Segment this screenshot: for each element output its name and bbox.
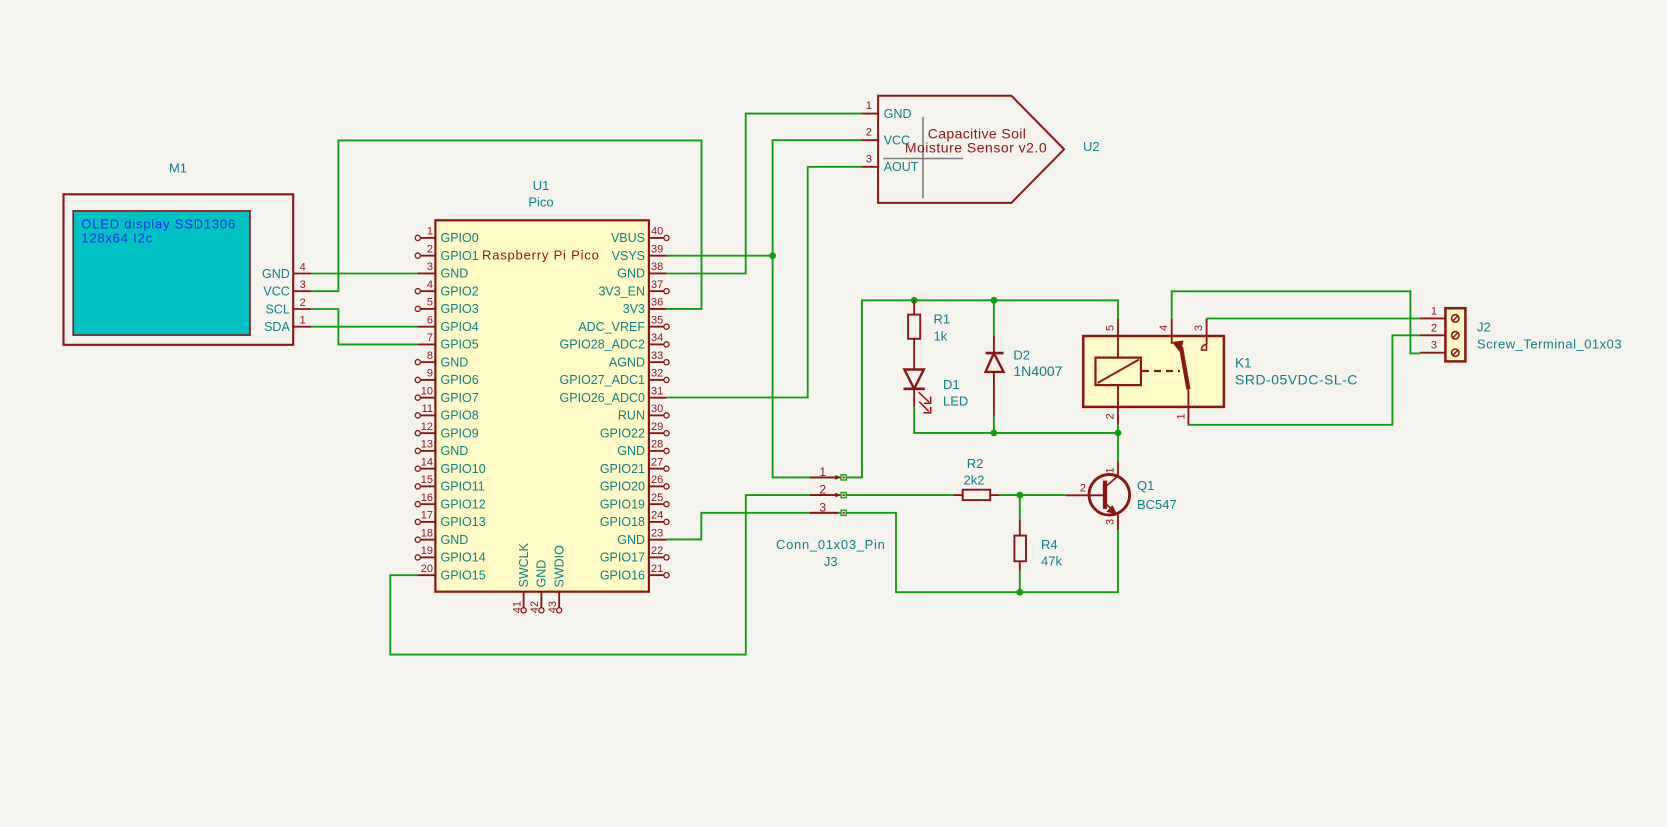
wire Q1 collector to relay rail [1117, 433, 1119, 463]
wire M1 SCL to U1 GPIO5 [311, 309, 418, 344]
wire M1 GND to U1 pin3 GND [311, 273, 418, 275]
M1 pin 3 VCC [263, 279, 311, 298]
svg-text:GPIO19: GPIO19 [600, 497, 645, 511]
svg-text:7: 7 [427, 332, 433, 344]
svg-text:GPIO3: GPIO3 [441, 302, 479, 316]
U1 pin 25 GPIO19 [600, 492, 669, 512]
svg-text:GND: GND [617, 533, 645, 547]
OLED display module M1 [64, 194, 294, 344]
U1 pin 38 GND [617, 261, 666, 281]
U2 pin 3 AOUT [861, 153, 918, 174]
svg-text:VCC: VCC [884, 134, 910, 148]
svg-text:16: 16 [421, 492, 433, 504]
svg-text:D1: D1 [943, 377, 960, 392]
svg-text:GPIO26_ADC0: GPIO26_ADC0 [560, 391, 646, 405]
svg-text:GPIO17: GPIO17 [600, 551, 645, 565]
wire U1 GND23 to J3 pin3 [667, 513, 841, 540]
svg-text:GPIO15: GPIO15 [441, 568, 486, 582]
transistor Q1 [1066, 462, 1130, 530]
svg-text:21: 21 [651, 563, 663, 575]
sensor U2 body [878, 96, 1064, 203]
svg-text:23: 23 [651, 527, 663, 539]
svg-text:Screw_Terminal_01x03: Screw_Terminal_01x03 [1477, 337, 1622, 352]
M1 pin 2 SCL [265, 297, 311, 316]
U2 pin 2 VCC [861, 127, 910, 148]
U1 pin 1 GPIO0 [415, 226, 479, 246]
svg-text:GPIO28_ADC2: GPIO28_ADC2 [560, 338, 646, 352]
U1 pin 22 GPIO17 [600, 545, 669, 565]
svg-text:28: 28 [651, 439, 663, 451]
svg-text:GPIO4: GPIO4 [441, 320, 479, 334]
junction R4 bottom [1016, 589, 1023, 596]
svg-text:GPIO13: GPIO13 [441, 515, 486, 529]
J2 pin 3 [1420, 340, 1459, 357]
svg-text:SWDIO: SWDIO [553, 545, 567, 588]
svg-text:J3: J3 [824, 554, 838, 569]
U1 pin 11 GPIO8 [415, 403, 479, 423]
svg-text:31: 31 [651, 385, 663, 397]
junction D2 bottom [991, 430, 998, 437]
U1 pin 31 GPIO26_ADC0 [560, 385, 667, 405]
K1 switch armature [1172, 341, 1188, 390]
svg-text:2: 2 [427, 243, 433, 255]
svg-text:10: 10 [421, 385, 433, 397]
K1 dashed link [1142, 370, 1180, 372]
svg-text:42: 42 [529, 601, 541, 613]
svg-text:GPIO5: GPIO5 [441, 338, 479, 352]
U1 pin 3 GND [418, 261, 469, 281]
wire U1 VSYS to node [667, 255, 773, 257]
svg-text:D2: D2 [1013, 348, 1030, 363]
svg-text:GPIO20: GPIO20 [600, 480, 645, 494]
wire node to R4 top [1019, 495, 1021, 520]
U1 pin 40 VBUS [611, 226, 669, 246]
svg-text:AOUT: AOUT [884, 160, 919, 174]
J2 pin 2 [1420, 322, 1459, 339]
U1 pin 2 GPIO1 [415, 243, 479, 263]
J3 pin 1 [810, 465, 846, 480]
wire D1 bottom rail to K1 pin2 [914, 407, 1118, 433]
svg-text:GPIO6: GPIO6 [441, 373, 479, 387]
K1 pin4 contact [1171, 336, 1173, 344]
svg-text:R1: R1 [934, 312, 951, 327]
svg-text:15: 15 [421, 474, 433, 486]
svg-text:27: 27 [651, 456, 663, 468]
svg-text:1: 1 [866, 100, 872, 112]
junction R4 top node [1016, 492, 1023, 499]
svg-text:GND: GND [617, 267, 645, 281]
wire VSYS net: U2 VCC down to J3 pin1 [773, 140, 862, 477]
svg-text:1N4007: 1N4007 [1013, 363, 1062, 379]
svg-text:AGND: AGND [609, 355, 645, 369]
svg-text:GPIO2: GPIO2 [441, 284, 479, 298]
U1 pin 5 GPIO3 [415, 297, 479, 317]
K1 pin 2 stub [1117, 407, 1119, 425]
svg-text:32: 32 [651, 368, 663, 380]
svg-text:GND: GND [441, 267, 469, 281]
svg-text:17: 17 [421, 510, 433, 522]
svg-text:GPIO21: GPIO21 [600, 462, 645, 476]
U1 pin 15 GPIO11 [415, 474, 485, 494]
svg-text:Pico: Pico [528, 195, 553, 210]
svg-text:3: 3 [427, 261, 433, 273]
wire D2 bottom to rail [993, 416, 995, 433]
svg-text:38: 38 [651, 261, 663, 273]
screw terminal J2 body [1445, 308, 1465, 361]
U1 pin 26 GPIO20 [600, 474, 669, 494]
svg-text:U1: U1 [533, 178, 550, 193]
svg-text:47k: 47k [1041, 554, 1062, 569]
svg-text:11: 11 [422, 403, 433, 415]
svg-text:3: 3 [866, 153, 872, 165]
svg-text:GPIO12: GPIO12 [441, 497, 486, 511]
J3 pin 2 [810, 483, 846, 498]
M1 pin 4 GND [262, 262, 311, 281]
svg-text:2: 2 [819, 483, 826, 497]
svg-text:26: 26 [651, 474, 663, 486]
wire R4 bottom to GND rail [1019, 571, 1021, 593]
svg-text:3: 3 [1105, 519, 1117, 525]
junction R1 top [911, 297, 918, 304]
U1 pin 35 ADC_VREF [578, 314, 669, 334]
svg-text:GPIO18: GPIO18 [600, 515, 645, 529]
svg-text:13: 13 [421, 439, 433, 451]
relay K1 body [1083, 336, 1224, 407]
svg-text:VCC: VCC [263, 285, 289, 299]
svg-text:GND: GND [262, 267, 290, 281]
svg-text:VSYS: VSYS [612, 249, 645, 263]
svg-text:GND: GND [884, 107, 912, 121]
svg-text:3: 3 [300, 279, 306, 291]
U1 pin 34 GPIO28_ADC2 [560, 332, 670, 352]
wire J3 pin1 to +5V top rail to K1 pin5 [847, 300, 1119, 477]
svg-text:GPIO8: GPIO8 [441, 409, 479, 423]
svg-text:BC547: BC547 [1137, 497, 1177, 512]
U1 pin 13 GND [415, 439, 468, 459]
svg-text:SWCLK: SWCLK [517, 542, 531, 587]
wire K1 pin3 to J2 pin1 [1207, 318, 1420, 320]
svg-text:3V3_EN: 3V3_EN [598, 284, 645, 298]
wire J3 pin3 GND rail to Q1 emitter [847, 513, 1119, 592]
junction VSYS node [769, 252, 776, 259]
svg-text:M1: M1 [169, 161, 187, 176]
resistor R1 [908, 315, 920, 370]
svg-text:43: 43 [547, 601, 559, 613]
svg-text:Q1: Q1 [1137, 478, 1154, 493]
wire J3 pin2 to R2 [847, 494, 954, 496]
svg-text:3: 3 [819, 500, 826, 514]
svg-text:29: 29 [651, 421, 663, 433]
svg-text:3V3: 3V3 [623, 302, 645, 316]
svg-text:14: 14 [421, 456, 433, 468]
svg-text:K1: K1 [1235, 356, 1252, 371]
svg-text:18: 18 [421, 527, 433, 539]
svg-text:GPIO11: GPIO11 [441, 480, 485, 494]
svg-text:5: 5 [1105, 325, 1117, 331]
svg-text:GPIO10: GPIO10 [441, 462, 486, 476]
U1 pin 36 3V3 [623, 297, 667, 317]
svg-text:GPIO1: GPIO1 [441, 249, 479, 263]
K1 pin3 contact [1201, 319, 1206, 350]
diode D2 [986, 353, 1004, 415]
svg-text:GND: GND [441, 355, 469, 369]
svg-text:5: 5 [427, 297, 433, 309]
svg-text:GPIO16: GPIO16 [600, 568, 645, 582]
U1 pin 29 GPIO22 [600, 421, 669, 441]
svg-text:20: 20 [421, 563, 433, 575]
svg-text:GND: GND [441, 533, 469, 547]
svg-text:RUN: RUN [618, 409, 645, 423]
U1 pin 41 SWCLK [511, 542, 531, 613]
wire K1 pin4 to J2 pin3 [1172, 291, 1420, 353]
svg-text:R4: R4 [1041, 537, 1058, 552]
U1 pin 20 GPIO15 [418, 563, 486, 583]
svg-text:Moisture Sensor v2.0: Moisture Sensor v2.0 [905, 139, 1047, 155]
svg-text:J2: J2 [1477, 320, 1491, 335]
wire D2 top to rail [993, 300, 995, 335]
U1 pin 30 RUN [618, 403, 669, 423]
svg-text:22: 22 [651, 545, 663, 557]
U1 pin 43 SWDIO [547, 545, 567, 613]
svg-text:39: 39 [651, 243, 663, 255]
U1 pin 7 GPIO5 [418, 332, 479, 352]
K1 coil [1096, 336, 1141, 407]
U1 pin 28 GND [617, 439, 669, 459]
U1 pin 6 GPIO4 [418, 314, 479, 334]
wire K1 pin1 to J2 pin2 [1188, 335, 1419, 425]
K1 pin 5 stub [1117, 319, 1119, 336]
svg-text:SCL: SCL [265, 302, 289, 316]
svg-text:4: 4 [1158, 325, 1170, 331]
svg-text:LED: LED [943, 394, 968, 409]
U2 pin 1 GND [861, 100, 911, 121]
U1 pin 27 GPIO21 [600, 456, 669, 476]
svg-text:6: 6 [427, 314, 433, 326]
U1 pin 12 GPIO9 [415, 421, 479, 441]
svg-text:SDA: SDA [264, 320, 290, 334]
svg-text:3: 3 [1193, 325, 1205, 331]
svg-text:2: 2 [300, 297, 306, 309]
wire U1 GND38 to U2 GND [667, 114, 862, 274]
resistor R4 [1014, 520, 1026, 571]
svg-text:GPIO7: GPIO7 [441, 391, 479, 405]
svg-text:R2: R2 [967, 456, 984, 471]
svg-text:GPIO27_ADC1: GPIO27_ADC1 [560, 373, 646, 387]
svg-text:1: 1 [1176, 413, 1188, 419]
svg-text:9: 9 [427, 368, 433, 380]
svg-text:37: 37 [651, 279, 663, 291]
svg-text:33: 33 [651, 350, 663, 362]
K1 pin 4 stub [1171, 319, 1173, 336]
svg-text:2: 2 [1105, 413, 1117, 419]
U1 pin 37 3V3_EN [598, 279, 669, 299]
U1 pin 21 GPIO16 [600, 563, 669, 583]
resistor R2 [954, 490, 1000, 500]
microcontroller U1 body [435, 220, 649, 591]
wire U1 GPIO15 to J3 pin2 [390, 495, 840, 654]
svg-text:24: 24 [651, 510, 663, 522]
svg-text:34: 34 [651, 332, 663, 344]
junction K1 pin2 / collector [1115, 430, 1122, 437]
svg-text:40: 40 [651, 226, 663, 238]
svg-text:8: 8 [427, 350, 433, 362]
svg-text:SRD-05VDC-SL-C: SRD-05VDC-SL-C [1235, 372, 1358, 388]
svg-text:VBUS: VBUS [611, 231, 645, 245]
U1 pin 33 AGND [609, 350, 669, 370]
svg-text:19: 19 [421, 545, 433, 557]
svg-text:GND: GND [617, 444, 645, 458]
svg-text:Conn_01x03_Pin: Conn_01x03_Pin [776, 537, 886, 552]
U1 pin 18 GND [415, 527, 468, 547]
U1 pin 23 GND [617, 527, 666, 547]
svg-text:GND: GND [535, 560, 549, 588]
LED D1 [903, 370, 931, 414]
svg-text:4: 4 [427, 279, 433, 291]
svg-text:ADC_VREF: ADC_VREF [578, 320, 645, 334]
wire M1 SDA to U1 GPIO4 [311, 326, 418, 328]
U1 pin 10 GPIO7 [415, 385, 479, 405]
M1 pin 1 SDA [264, 315, 311, 334]
svg-text:Raspberry Pi Pico: Raspberry Pi Pico [482, 248, 600, 263]
U1 pin 17 GPIO13 [415, 510, 486, 530]
svg-text:2k2: 2k2 [964, 473, 985, 488]
wire U2 AOUT to U1 GPIO26_ADC0 [667, 167, 862, 398]
svg-text:2: 2 [866, 127, 872, 139]
svg-text:2: 2 [1080, 483, 1086, 495]
svg-text:36: 36 [651, 297, 663, 309]
svg-text:3: 3 [1431, 340, 1437, 352]
svg-text:GPIO9: GPIO9 [441, 426, 479, 440]
U1 pin 14 GPIO10 [415, 456, 486, 476]
svg-text:1: 1 [1431, 305, 1437, 317]
U2 probe graphic [883, 117, 963, 198]
svg-text:1: 1 [819, 465, 826, 479]
svg-text:1: 1 [1105, 467, 1117, 473]
svg-text:GND: GND [441, 444, 469, 458]
svg-text:2: 2 [1431, 322, 1437, 334]
junction D2 top [991, 297, 998, 304]
U1 pin 42 GND [529, 560, 549, 614]
svg-text:12: 12 [421, 421, 433, 433]
U1 pin 19 GPIO14 [415, 545, 486, 565]
U1 pin 24 GPIO18 [600, 510, 669, 530]
U1 pin 32 GPIO27_ADC1 [560, 368, 670, 388]
svg-text:GPIO0: GPIO0 [441, 231, 479, 245]
svg-text:GPIO22: GPIO22 [600, 426, 645, 440]
U1 pin 16 GPIO12 [415, 492, 486, 512]
U1 pin 9 GPIO6 [415, 368, 479, 388]
J2 pin 1 [1420, 305, 1459, 322]
svg-text:1k: 1k [934, 329, 948, 344]
U1 pin 8 GND [415, 350, 468, 370]
U1 pin 39 VSYS [612, 243, 667, 263]
svg-text:1: 1 [300, 315, 306, 327]
svg-text:41: 41 [511, 601, 523, 613]
svg-text:4: 4 [300, 262, 306, 274]
svg-text:U2: U2 [1083, 139, 1100, 154]
svg-text:GPIO14: GPIO14 [441, 551, 486, 565]
D2 top pin stub [993, 336, 995, 354]
svg-text:1: 1 [427, 226, 433, 238]
K1 pin 1 stub [1187, 389, 1189, 424]
svg-text:128x64 I2c: 128x64 I2c [81, 230, 153, 245]
wire M1 VCC to U1 3V3 [311, 140, 702, 309]
wire R2 to Q1 base [999, 494, 1065, 496]
J3 pin 3 [810, 500, 846, 515]
U1 pin 4 GPIO2 [415, 279, 479, 299]
R1 top pin stub [913, 300, 915, 314]
svg-text:35: 35 [651, 314, 663, 326]
svg-text:30: 30 [651, 403, 663, 415]
svg-text:25: 25 [651, 492, 663, 504]
